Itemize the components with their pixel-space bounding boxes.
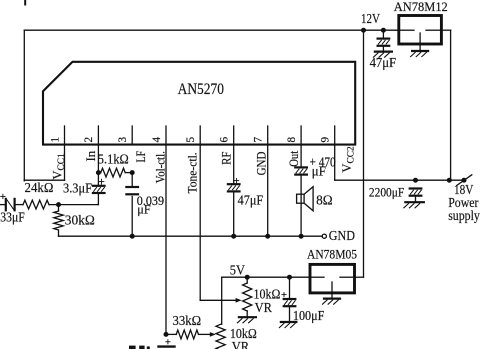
svg-text:VCC1: VCC1	[51, 153, 67, 180]
svg-text:GND: GND	[329, 228, 355, 243]
svg-text:6: 6	[219, 137, 231, 143]
svg-text:VR: VR	[232, 339, 250, 349]
svg-text:4: 4	[151, 137, 163, 143]
svg-text:24kΩ: 24kΩ	[25, 180, 54, 195]
svg-text:3: 3	[117, 137, 129, 143]
svg-text:AN5270: AN5270	[178, 81, 225, 98]
svg-text:μF: μF	[312, 163, 326, 178]
svg-text:100μF: 100μF	[293, 308, 325, 323]
svg-text:supply: supply	[448, 208, 480, 223]
svg-text:33μF: 33μF	[0, 210, 25, 225]
svg-text:30kΩ: 30kΩ	[65, 213, 95, 228]
svg-text:5V: 5V	[230, 263, 246, 278]
svg-text:7: 7	[253, 137, 265, 143]
svg-text:5: 5	[185, 137, 197, 143]
svg-text:2200μF: 2200μF	[369, 184, 404, 199]
svg-text:9: 9	[320, 137, 332, 143]
svg-text:LF: LF	[134, 151, 148, 163]
svg-text:Out: Out	[287, 150, 301, 167]
svg-text:In: In	[84, 151, 98, 162]
svg-text:Tone-ctl.: Tone-ctl.	[186, 152, 200, 193]
svg-text:GND: GND	[255, 151, 269, 175]
svg-text:AN78M12: AN78M12	[394, 0, 448, 14]
svg-text:RF: RF	[220, 151, 234, 164]
svg-text:12V: 12V	[361, 11, 380, 26]
svg-text:VR: VR	[255, 300, 273, 315]
svg-text:3.3μF: 3.3μF	[63, 181, 92, 196]
svg-text:2: 2	[83, 137, 95, 143]
svg-text:33kΩ: 33kΩ	[173, 313, 202, 328]
svg-text:μF: μF	[137, 202, 151, 216]
svg-text:5.1kΩ: 5.1kΩ	[98, 151, 129, 166]
svg-text:1: 1	[49, 137, 61, 143]
svg-text:8: 8	[286, 137, 298, 143]
svg-text:8Ω: 8Ω	[316, 192, 333, 207]
svg-text:Vol-ctl.: Vol-ctl.	[154, 151, 168, 183]
svg-text:AN78M05: AN78M05	[307, 248, 357, 262]
svg-text:47μF: 47μF	[370, 55, 397, 70]
svg-text:47μF: 47μF	[238, 193, 264, 208]
svg-text:VCC2: VCC2	[340, 146, 356, 173]
